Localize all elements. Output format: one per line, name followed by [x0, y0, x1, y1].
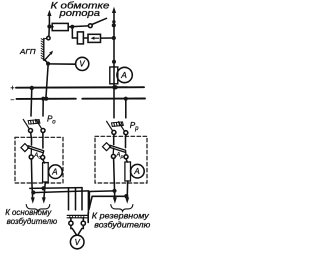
- svg-text:−: −: [10, 97, 14, 104]
- svg-text:о: о: [38, 156, 41, 161]
- svg-text:А: А: [51, 168, 57, 177]
- svg-text:К резервному: К резервному: [92, 212, 150, 221]
- svg-text:АГП: АГП: [19, 47, 36, 56]
- svg-text:V: V: [79, 60, 85, 69]
- svg-text:р: р: [134, 126, 139, 132]
- svg-text:V: V: [75, 238, 81, 247]
- svg-text:А: А: [120, 70, 127, 80]
- svg-text:р: р: [120, 155, 124, 160]
- svg-text:возбудителю: возбудителю: [7, 216, 58, 226]
- svg-text:возбудителю: возбудителю: [94, 220, 150, 229]
- svg-text:ротора: ротора: [58, 8, 100, 18]
- svg-text:А: А: [133, 167, 139, 176]
- svg-text:+: +: [10, 85, 14, 92]
